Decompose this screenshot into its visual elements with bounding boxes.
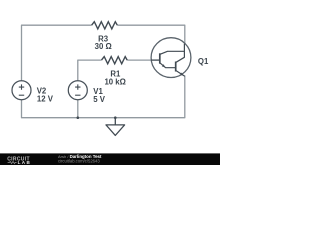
Q1a base bar	[159, 53, 161, 63]
base stub	[151, 59, 159, 61]
Q2 base bar	[175, 62, 177, 72]
resistor R3	[92, 22, 118, 51]
svg-text:10 kΩ: 10 kΩ	[104, 78, 125, 87]
wire R1 to Q1 base	[127, 59, 151, 61]
junction node V1-bottom	[77, 116, 80, 119]
wire V1 top to R1	[78, 60, 102, 81]
ground	[106, 118, 125, 136]
Q1a emitter	[160, 63, 175, 67]
voltage source V1	[68, 81, 106, 104]
svg-text:Q1: Q1	[198, 57, 209, 66]
junction node ground tap	[114, 116, 117, 119]
CircuitLab logo	[7, 157, 31, 165]
svg-text:30 Ω: 30 Ω	[95, 42, 112, 51]
svg-text:circuitlab.com/c/52643: circuitlab.com/c/52643	[58, 158, 100, 163]
wire V1 bottom to ground rail	[77, 100, 79, 118]
footer bar	[0, 153, 220, 165]
wire top rail from R3 to collector	[117, 25, 185, 43]
svg-text:5 V: 5 V	[93, 95, 106, 104]
svg-text:12 V: 12 V	[37, 95, 54, 104]
wire emitter to bottom rail	[22, 76, 185, 118]
Q2 emitter	[176, 71, 185, 76]
svg-text:LAB: LAB	[18, 160, 32, 165]
voltage source V2	[12, 81, 54, 104]
wire top rail from V2 to R3	[22, 25, 92, 80]
Q1a collector	[160, 51, 184, 54]
resistor R1	[102, 57, 128, 87]
Q1a emitter arrow	[162, 64, 165, 67]
Q2 emitter arrow	[180, 73, 183, 76]
Q2 collector	[176, 44, 184, 63]
transistor Q1 (darlington pair)	[151, 38, 209, 78]
